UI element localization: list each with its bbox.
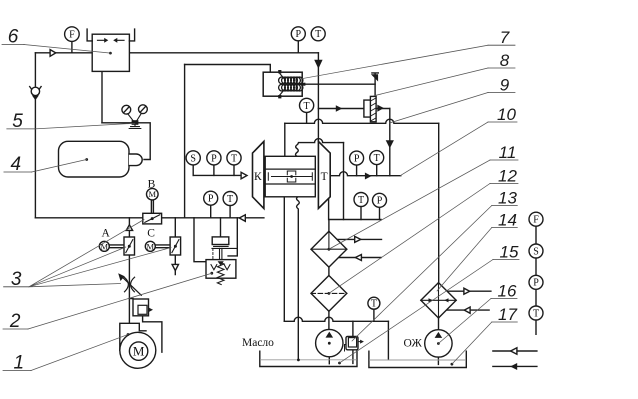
svg-text:T: T — [533, 308, 539, 319]
wire mixer drain stem — [101, 71, 103, 122]
wire scavenge drop into coolant tank — [387, 321, 389, 359]
valve C — [145, 237, 180, 255]
coolant T gauge — [368, 297, 380, 309]
wire turbine outlet line with jumpover — [330, 172, 401, 176]
turbine T — [318, 141, 330, 208]
wire oil cooler water inlet — [337, 238, 381, 240]
svg-text:В: В — [148, 178, 156, 190]
LEADERS — [24, 45, 493, 371]
svg-text:15: 15 — [500, 243, 519, 262]
gauge P compressor intake — [207, 151, 221, 176]
label 6 underline — [2, 44, 24, 46]
leader 4 — [32, 160, 87, 173]
gauge T turbine inlet — [370, 151, 384, 176]
wire turbine drop to oil coolers — [328, 220, 330, 232]
leader 2 — [28, 273, 212, 329]
leader 15 — [340, 260, 494, 364]
label 10 underline — [488, 121, 517, 123]
svg-text:17: 17 — [498, 305, 517, 324]
gauge T turbine exhaust — [354, 193, 368, 220]
wire compressor intake line — [193, 174, 241, 176]
label 7 underline — [488, 44, 515, 46]
svg-text:F: F — [533, 215, 539, 226]
coolant cooler 14 — [421, 283, 456, 318]
wire heater supply — [185, 65, 271, 73]
leader 12 — [329, 184, 490, 294]
svg-text:10: 10 — [497, 105, 516, 124]
label 1 underline — [3, 370, 31, 372]
svg-text:2: 2 — [9, 311, 21, 332]
gauge T compressor intake — [227, 151, 241, 176]
flow arrow down on turbine inlet drop — [386, 140, 394, 148]
leader 16 — [438, 299, 491, 344]
humidifier 8 — [364, 96, 376, 121]
svg-text:T: T — [371, 298, 377, 309]
leader 11 — [329, 160, 490, 249]
coolant pump 16 — [425, 330, 452, 357]
wire cooler interconnect — [328, 267, 330, 275]
svg-text:T: T — [358, 195, 364, 206]
svg-text:P: P — [208, 194, 214, 205]
svg-text:13: 13 — [498, 189, 517, 208]
leader 10 — [401, 122, 489, 176]
wire bearing top outlet with jumpover — [296, 139, 344, 157]
svg-text:T: T — [231, 153, 237, 164]
legend gas flow arrow — [493, 348, 537, 354]
pilot regulator above relief valve 2 — [212, 237, 237, 260]
compressor K — [253, 141, 264, 208]
gauge T heater outlet — [300, 98, 314, 123]
wire top supply line right segment — [129, 52, 318, 54]
svg-text:М: М — [147, 241, 155, 251]
wire relief feed — [352, 321, 354, 336]
water outlet arrow of coolant cooler — [464, 307, 470, 313]
svg-text:11: 11 — [499, 143, 517, 162]
leader 7 — [300, 45, 488, 79]
oil cooler 12 — [311, 276, 347, 312]
leader 6 — [24, 45, 110, 54]
discharge arrow on bottom main line — [239, 215, 245, 222]
electric heater 7 — [263, 70, 305, 98]
svg-text:F: F — [69, 30, 75, 41]
svg-text:T: T — [227, 194, 233, 205]
svg-text:4: 4 — [11, 154, 22, 175]
oil cooler 11 — [311, 231, 347, 267]
svg-text:К: К — [254, 171, 262, 183]
gauge S compressor intake — [186, 151, 200, 176]
label 14 underline — [492, 227, 518, 229]
wire relief assembly right pipe — [228, 218, 237, 256]
oil pump relief 13 — [345, 336, 364, 351]
svg-text:P: P — [354, 154, 360, 165]
svg-text:7: 7 — [500, 28, 510, 47]
gauge P turbine exhaust — [373, 193, 387, 219]
check valve on top line — [50, 50, 56, 57]
label 5 underline — [7, 128, 35, 130]
svg-text:T: T — [374, 153, 380, 164]
flow arrow on turbine outlet line — [365, 173, 372, 180]
wire compressor outlet line with jumpovers — [285, 119, 439, 123]
label 17 underline — [492, 321, 518, 323]
svg-text:P: P — [533, 278, 539, 289]
flow arrow down on turbine feed — [314, 60, 322, 69]
gauge F on top line — [65, 27, 80, 53]
label 8 underline — [488, 67, 515, 69]
relief valve 2 — [206, 260, 236, 285]
wire turbine feed down — [317, 53, 319, 142]
check valve on left riser — [30, 87, 41, 101]
wire relief assembly left pipe — [194, 218, 206, 262]
leader 5 — [35, 123, 135, 129]
wire compressor discharge riser — [284, 123, 286, 156]
leader 1 — [31, 335, 128, 371]
legend instrument chain F S P T — [529, 212, 543, 334]
wire turbine inlet drop — [389, 109, 391, 176]
gauge P compressor outlet — [204, 191, 218, 218]
wire relief assembly stem — [220, 218, 222, 237]
gauge P top — [291, 27, 305, 53]
label 12 underline — [490, 183, 518, 185]
inlet pressure regulator on blower — [133, 299, 153, 316]
wire top supply line left segment — [35, 52, 92, 54]
svg-text:А: А — [102, 227, 111, 239]
wire left riser — [34, 53, 36, 218]
svg-text:T: T — [315, 29, 321, 40]
bleed valve 9 — [371, 73, 378, 97]
vent arrow below valve C — [172, 264, 178, 270]
label 3 underline — [4, 286, 29, 288]
label 4 underline — [4, 171, 32, 173]
leader 3 fan — [29, 220, 171, 287]
wire oil cooler water outlet — [337, 257, 381, 259]
svg-text:S: S — [533, 246, 539, 257]
svg-text:Т: Т — [321, 171, 328, 183]
gauge T top — [311, 27, 325, 41]
wire coolant cooler water inlet — [447, 290, 491, 292]
bearing housing U1 — [265, 156, 315, 197]
water inlet arrow of coolant cooler — [464, 288, 470, 294]
flow arrow into humidifier — [336, 105, 343, 111]
regulator 5 with two gauges — [122, 105, 147, 129]
label 9 underline — [488, 92, 515, 94]
label 13 underline — [492, 205, 518, 207]
svg-text:М: М — [149, 189, 157, 199]
wire valve C riser — [174, 218, 176, 275]
label 2 underline — [3, 328, 28, 330]
label 15 underline — [493, 259, 519, 261]
water outlet arrow of oil cooler — [355, 255, 361, 261]
legend liquid flow arrow — [493, 363, 537, 370]
svg-text:5: 5 — [12, 111, 23, 132]
wire right downcomer to cooler — [438, 123, 440, 282]
wire heater outlet — [301, 83, 375, 85]
mixer box 6 — [87, 29, 135, 71]
wire coolant pump suction — [437, 357, 439, 364]
svg-text:1: 1 — [14, 353, 25, 374]
water inlet arrow of oil cooler — [355, 236, 361, 242]
leader 13 — [352, 206, 492, 342]
svg-text:P: P — [296, 29, 302, 40]
oil pump 15 — [316, 329, 343, 356]
wire valve A riser — [128, 218, 130, 323]
leader 14 — [437, 228, 492, 292]
wire bottom main line — [35, 217, 264, 219]
svg-text:6: 6 — [8, 27, 19, 48]
svg-text:Масло: Масло — [242, 337, 274, 349]
svg-text:3: 3 — [11, 269, 22, 290]
coolant tank — [369, 351, 466, 367]
svg-text:9: 9 — [500, 76, 510, 95]
wire coolant pump feed from cooler — [438, 318, 440, 330]
wire bearing drain right with break squiggle — [297, 197, 300, 360]
wire regulator line — [102, 123, 150, 160]
svg-text:16: 16 — [498, 282, 517, 301]
adjustable throttle X on valve A riser — [118, 273, 141, 295]
svg-text:8: 8 — [500, 51, 510, 70]
label 16 underline — [491, 298, 517, 300]
svg-text:С: С — [147, 228, 155, 240]
wire oil pump suction — [328, 357, 330, 364]
valve A — [99, 237, 134, 255]
svg-text:ОЖ: ОЖ — [404, 338, 423, 350]
svg-text:12: 12 — [498, 167, 517, 186]
wire turbine exhaust line — [329, 198, 381, 220]
valve B — [143, 188, 162, 224]
wire turbine bypass drop — [343, 143, 345, 220]
wire coolant T-gauge stem — [373, 309, 375, 321]
svg-text:T: T — [304, 101, 310, 112]
leader 8 — [374, 68, 488, 96]
wire center riser — [184, 65, 186, 218]
svg-text:М: М — [101, 241, 109, 251]
leader 17 — [452, 322, 492, 364]
wire bearing drain left — [283, 197, 285, 321]
wire humidifier branch — [318, 108, 389, 110]
svg-text:P: P — [377, 196, 383, 207]
wire coolant cooler water outlet — [447, 309, 490, 311]
svg-text:S: S — [190, 153, 196, 164]
wire oil scavenge line with jumpovers — [284, 317, 388, 321]
svg-text:P: P — [211, 153, 217, 164]
svg-text:М: М — [133, 344, 145, 359]
air receiver tank 4 — [59, 141, 143, 177]
svg-text:14: 14 — [498, 211, 517, 230]
label 11 underline — [490, 159, 518, 161]
gauge T compressor outlet — [223, 192, 237, 218]
wire blower inlet branch box — [129, 299, 142, 322]
oil tank — [260, 351, 357, 366]
wire relief drain — [352, 350, 354, 364]
gauge P turbine inlet — [350, 151, 364, 176]
vent arrow above valve A — [126, 225, 132, 231]
leader 9 — [390, 93, 489, 124]
flow arrow out of humidifier — [377, 105, 384, 112]
blower 1 — [120, 322, 162, 369]
intake arrow into compressor — [241, 172, 247, 179]
wire cooler to oil pump — [328, 311, 330, 333]
